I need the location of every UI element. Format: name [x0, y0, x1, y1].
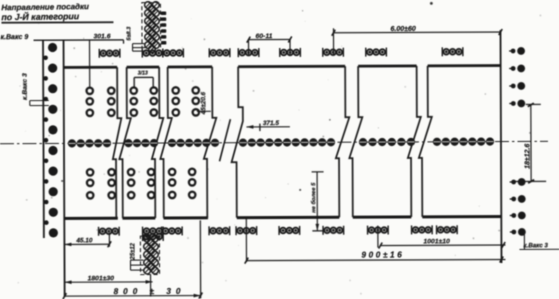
rivet row G4 (panel P4)	[239, 138, 247, 146]
bottom flange rivet group B4	[210, 228, 216, 234]
dimension 800±30	[65, 295, 201, 298]
panel P1 bottom edge	[64, 217, 117, 220]
panel P4 top edge	[238, 65, 345, 68]
bottom flange rivet group B1	[100, 228, 106, 234]
bottom splice rivet chain	[144, 235, 151, 242]
top flange rivet group T5	[239, 50, 245, 56]
svg-text:к.Вакс 3: к.Вакс 3	[22, 73, 29, 100]
bottom splice leaders	[130, 259, 143, 261]
top flange rivet group T9	[443, 49, 449, 55]
dimension 60-11 (top centre)	[249, 38, 290, 40]
svg-text:25±12: 25±12	[130, 242, 136, 260]
leader lines left	[30, 100, 49, 102]
panel P5 bottom edge	[353, 215, 411, 218]
panel P5 left edge (break jog)	[349, 66, 363, 217]
top splice edge bar	[161, 11, 166, 15]
panel P5 top edge	[358, 65, 416, 68]
svg-text:5±8.3: 5±8.3	[126, 26, 132, 41]
svg-text:3/13: 3/13	[138, 71, 148, 77]
panel P6 top edge	[428, 64, 501, 67]
panel P3 right edge (break jog)	[203, 67, 216, 218]
title underline	[1, 21, 113, 23]
svg-text:не более 5: не более 5	[310, 182, 317, 213]
dimension не более 5 (vertical, panel P4)	[316, 172, 318, 231]
panel P6 left edge (break jog)	[418, 66, 432, 217]
top splice rivet chain	[145, 2, 152, 9]
rivet row G5 (panel P5)	[359, 138, 367, 146]
bottom flange rivet group B7	[324, 227, 330, 233]
top flange rivet group T6	[281, 50, 287, 56]
right end rivet pairs (top)	[509, 50, 513, 52]
scan specks	[299, 189, 301, 191]
right end rivet pairs (bottom)	[510, 181, 514, 183]
svg-text:900±16: 900±16	[361, 250, 404, 259]
bottom flange rivet group B2	[144, 228, 150, 234]
bottom flange rivet group B10	[438, 227, 444, 233]
svg-text:800 ± 30: 800 ± 30	[114, 287, 186, 296]
panel P2 top edge	[127, 66, 159, 69]
panel P5 right edge (break jog)	[407, 66, 421, 217]
witness line x90	[89, 40, 91, 89]
rivet row G6 (panel P6)	[433, 138, 441, 146]
left rivet column	[48, 43, 57, 52]
top flange rivet group T8	[367, 49, 373, 55]
panel P6 bottom edge	[422, 215, 501, 218]
panel P4 right edge (break jog)	[335, 66, 349, 217]
bottom flange rivet group B9	[413, 227, 419, 233]
svg-text:1801±30: 1801±30	[88, 275, 115, 282]
bottom flange rivet group B5	[237, 228, 243, 234]
left end plate edge	[42, 40, 45, 238]
panel P4 bottom edge	[237, 216, 339, 220]
top flange rivet group T4	[210, 50, 216, 56]
rivet cluster P2 bottom	[128, 169, 134, 175]
bottom flange rivet group B3	[163, 228, 169, 234]
top flange rivet group T7	[324, 49, 330, 55]
rivet cluster P3 top	[173, 87, 179, 93]
svg-text:1001±10: 1001±10	[423, 238, 450, 245]
svg-text:18±12.6: 18±12.6	[524, 144, 531, 169]
top splice leaders	[133, 43, 146, 45]
witness line x380	[377, 226, 379, 248]
dimension 900±16	[246, 260, 505, 261]
rivet row G1 (panel P1)	[68, 139, 76, 147]
paper speckle noise	[182, 47, 184, 49]
bottom splice second row	[144, 234, 150, 240]
dimension 371.5 (panel P4)	[246, 126, 289, 128]
rivet row G3 (panel P3)	[168, 139, 176, 147]
panel P1 top edge	[64, 66, 117, 69]
panel P2 left edge (break jog)	[119, 67, 131, 218]
dimension 1001±10	[380, 244, 505, 247]
panel P3 bottom edge	[163, 216, 207, 219]
svg-text:к.Вакс 9: к.Вакс 9	[0, 34, 28, 41]
rivet cluster P1 top	[87, 88, 93, 94]
svg-text:45.10: 45.10	[75, 237, 92, 244]
svg-text:60-11: 60-11	[255, 33, 272, 40]
svg-text:6.00±60: 6.00±60	[390, 26, 415, 33]
rivet row G2 (panel P2)	[124, 139, 132, 147]
svg-text:к.Вакс 3: к.Вакс 3	[523, 242, 548, 249]
dimension 45.10	[64, 243, 109, 245]
bottom flange rivet group B6	[280, 228, 286, 234]
bottom flange rivet group B8	[369, 227, 375, 233]
right vertical dimension 18±12.6	[530, 105, 532, 181]
panel P1 right edge (break jog)	[112, 67, 121, 218]
dimension 6.00±60 (top right)	[333, 31, 500, 34]
witness line x150 (splice)	[150, 275, 152, 297]
panel P3 top edge	[168, 65, 212, 68]
centreline (dash-dot)	[0, 141, 548, 143]
top splice dashed outline	[142, 3, 161, 51]
panel P4 left edge (break jog)	[231, 67, 243, 218]
top flange rivet group T1	[100, 50, 106, 56]
top flange rivet group T2	[143, 50, 149, 56]
panel P6 right edge	[500, 30, 501, 263]
top flange rivet group T3	[164, 50, 170, 56]
dimension 1801±30	[65, 281, 153, 283]
break slash mid gap	[219, 119, 230, 161]
svg-text:371.5: 371.5	[263, 120, 279, 127]
svg-text:по J-Й категории: по J-Й категории	[1, 10, 80, 22]
panel P2 right edge (break jog)	[151, 67, 163, 218]
rivet cluster P1 bottom	[87, 169, 93, 175]
rivet cluster P2 top	[131, 87, 137, 93]
witness line x246	[245, 218, 247, 262]
panel P3 left edge (break jog)	[160, 67, 172, 218]
leader line y41	[34, 39, 124, 41]
panel P2 bottom edge	[122, 216, 155, 219]
panel P1 left edge	[64, 40, 65, 297]
rivet cluster P3 bottom	[169, 169, 175, 175]
bottom splice dashed outline	[140, 236, 159, 275]
